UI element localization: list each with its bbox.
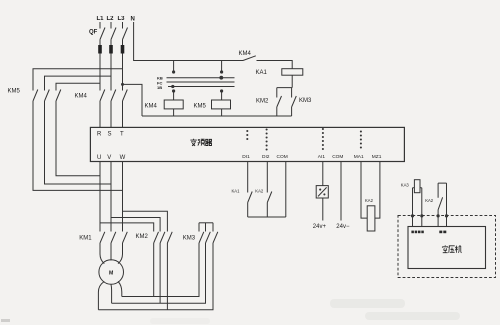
KM5 contact 3 — [56, 90, 61, 102]
wire N — [134, 22, 243, 61]
svg-text:COM: COM — [332, 154, 343, 160]
interlock bus line 3 — [168, 86, 235, 88]
node KA2 left — [437, 214, 440, 217]
node dot 1 — [172, 70, 175, 73]
relay coil KA1 — [282, 69, 303, 76]
svg-text:MA1: MA1 — [354, 154, 364, 160]
wire KM5 coil to return — [221, 109, 223, 116]
bottom link wire c — [98, 243, 213, 310]
inverter block U1 — [90, 127, 404, 161]
svg-text:U: U — [97, 155, 101, 161]
wire join DI1 DI2 COM — [248, 216, 286, 218]
svg-text:N: N — [131, 17, 135, 23]
svg-text:KA2: KA2 — [365, 198, 374, 203]
svg-text:KM1: KM1 — [79, 236, 92, 242]
compressor terminal label 2 (smudge) — [439, 231, 446, 234]
svg-text:COM: COM — [277, 154, 288, 160]
faint photo smudge bottom — [150, 299, 460, 324]
wire COM drop — [285, 162, 287, 218]
KM2 wire down 2 — [159, 243, 161, 303]
coil riser KM4 — [173, 91, 175, 100]
wire KM4 coil to return — [173, 109, 175, 116]
KM2 wire down 1 — [153, 243, 155, 297]
wire S input — [110, 101, 112, 127]
breaker QF pole 3 — [123, 28, 128, 40]
breaker QF pole 2 — [111, 28, 116, 40]
svg-text:KM4: KM4 — [145, 104, 158, 110]
contactor coil KM5 — [212, 100, 231, 109]
svg-text:KM5: KM5 — [194, 103, 207, 109]
node KA3 left — [411, 214, 414, 217]
node below bus 2 — [220, 89, 223, 92]
KM5 contact 1 — [33, 90, 38, 102]
wire transmitter down — [322, 198, 324, 221]
KA3 legs — [413, 188, 422, 227]
svg-text:L1: L1 — [97, 16, 105, 22]
bypass branch wire phase2 — [45, 76, 112, 90]
motor lead bottom 3 — [118, 281, 122, 296]
KM4 main contact 2 — [111, 90, 116, 102]
contact KM4 control — [243, 56, 292, 69]
compressor box — [408, 227, 486, 269]
svg-text:L2: L2 — [107, 16, 115, 22]
dotted marker DI1 — [246, 130, 248, 140]
contact KM3 control — [292, 96, 297, 116]
svg-text:KM3: KM3 — [183, 236, 196, 242]
KM3 wire top 1 — [198, 223, 200, 232]
svg-text:1B: 1B — [157, 85, 162, 90]
bypass branch wire phase1 — [56, 83, 100, 90]
KM1 contact 1 — [100, 232, 105, 243]
wire KA1 to contacts — [277, 75, 292, 97]
wire MA1 drop — [361, 162, 367, 219]
branch wire W to KM2 — [123, 211, 168, 231]
fuse FU1 — [98, 45, 102, 54]
compressor label 空压机 (drawn) — [442, 245, 461, 253]
motor M1 — [99, 260, 124, 285]
svg-text:24v−: 24v− — [336, 224, 350, 230]
svg-text:W: W — [120, 155, 126, 161]
compressor dashed enclosure — [398, 216, 496, 278]
node KA3 right — [420, 214, 423, 217]
svg-text:MZ1: MZ1 — [372, 154, 382, 160]
svg-text:M: M — [109, 270, 113, 276]
motor lead top 3 — [118, 243, 123, 264]
svg-text:KM4: KM4 — [75, 94, 88, 100]
svg-text:KA1: KA1 — [232, 189, 241, 194]
contact KM2 control — [277, 96, 282, 116]
motor lead top 1 — [100, 243, 104, 264]
dotted marker MA1 — [360, 130, 362, 148]
contact KA1 — [248, 192, 253, 218]
node below bus 1 — [172, 89, 175, 92]
svg-text:S: S — [108, 132, 112, 138]
wire V output — [110, 162, 112, 232]
svg-text:R: R — [97, 132, 102, 138]
motor lead bottom 1 — [98, 281, 104, 309]
motor lead bottom 2 — [110, 285, 113, 304]
breaker QF pole 1 — [100, 28, 105, 40]
bypass wire down 2 — [45, 101, 112, 184]
wire L2 top — [110, 22, 112, 29]
node dot 2 — [220, 70, 223, 73]
svg-text:KM2: KM2 — [256, 99, 269, 105]
svg-text:V: V — [107, 155, 111, 161]
KM4 main contact 1 — [100, 90, 105, 102]
wire DI1 drop — [247, 162, 249, 193]
wire L1 mid — [99, 40, 101, 46]
wire DI2 drop — [266, 162, 268, 193]
contactor coil KM4 — [164, 100, 183, 109]
relay coil KA2 (output) — [367, 206, 375, 231]
svg-text:AI1: AI1 — [318, 154, 326, 160]
svg-text:KM5: KM5 — [8, 89, 21, 95]
wire W output — [122, 162, 124, 232]
KM4 main contact 3 — [123, 90, 128, 102]
svg-text:KM2: KM2 — [136, 234, 149, 240]
interlock bus line 1 — [167, 77, 235, 79]
branch wire U to KM2 — [100, 223, 154, 232]
contact KA2 — [267, 192, 272, 218]
svg-text:24v+: 24v+ — [313, 224, 327, 230]
N drop wire 2 — [221, 61, 223, 72]
svg-text:KM3: KM3 — [299, 98, 312, 104]
KM3 wire top 3 — [212, 223, 214, 232]
wire L1 top — [99, 22, 101, 29]
control tap wire from L3 — [123, 84, 143, 116]
bottom link wire b — [112, 243, 206, 303]
wire R input — [99, 101, 101, 127]
KM2 wire down 3 — [166, 243, 168, 310]
wire COM2 drop — [340, 162, 342, 221]
KM1 contact 2 — [111, 232, 116, 243]
node on bus line1 — [219, 76, 223, 80]
svg-text:DI2: DI2 — [262, 154, 270, 160]
pressure transmitter — [316, 186, 328, 198]
wire U output — [99, 162, 101, 232]
wire L3 down — [122, 54, 124, 91]
fuse FU2 — [109, 45, 113, 54]
bypass wire down 1 — [33, 101, 123, 190]
fuse FU3 — [121, 45, 125, 54]
KM2 contact 3 — [167, 232, 172, 243]
node KA2 right — [445, 214, 448, 217]
dotted marker AI1 — [322, 128, 324, 150]
dotted marker DI2 — [266, 128, 268, 150]
wire T input — [122, 101, 124, 127]
wire L1 down — [99, 54, 101, 91]
interlock bus line 2 — [167, 81, 235, 83]
relay coil KA3 — [414, 180, 420, 193]
KM2 contact 1 — [154, 232, 159, 243]
svg-text:KM4: KM4 — [239, 51, 252, 57]
wire L2 down — [110, 54, 112, 91]
wire L3 mid — [122, 40, 124, 46]
KM3 contact 1 — [199, 232, 204, 243]
bottom link wire a — [122, 243, 199, 297]
motor lead top 2 — [110, 243, 112, 261]
node on bus line3 — [171, 85, 174, 88]
control return wire — [142, 115, 292, 117]
KM5 contact 2 — [45, 90, 50, 102]
bypass wire down 3 — [56, 101, 100, 176]
wire AI1 drop — [322, 162, 324, 186]
coil riser KM5 — [221, 91, 223, 100]
KM3 wire top 2 — [205, 223, 207, 232]
KM3 star bar — [199, 222, 213, 224]
inverter label 变频器 (drawn) — [190, 139, 211, 146]
svg-text:KA3: KA3 — [401, 183, 410, 188]
svg-text:QF: QF — [89, 30, 98, 36]
svg-text:T: T — [120, 132, 124, 138]
contact KA2 compressor — [438, 183, 446, 226]
wire MZ1 drop — [375, 162, 380, 219]
bypass branch wire phase3 — [33, 69, 123, 91]
KM3 contact 3 — [213, 232, 218, 243]
KM2 contact 2 — [160, 232, 165, 243]
KM3 contact 2 — [206, 232, 211, 243]
N drop wire 1 — [173, 61, 175, 72]
wire L3 top — [122, 22, 124, 29]
faint mark bottom-left — [1, 319, 10, 322]
node control tap — [121, 83, 124, 86]
wire L2 mid — [110, 40, 112, 46]
svg-text:L3: L3 — [118, 16, 126, 22]
svg-text:KA2: KA2 — [425, 198, 434, 203]
svg-text:KA2: KA2 — [255, 189, 264, 194]
svg-text:DI1: DI1 — [242, 154, 250, 160]
svg-text:KA1: KA1 — [256, 70, 268, 76]
branch wire V to KM2 — [111, 218, 160, 232]
KM1 contact 3 — [123, 232, 128, 243]
compressor terminal label 1 (smudge) — [411, 231, 423, 234]
